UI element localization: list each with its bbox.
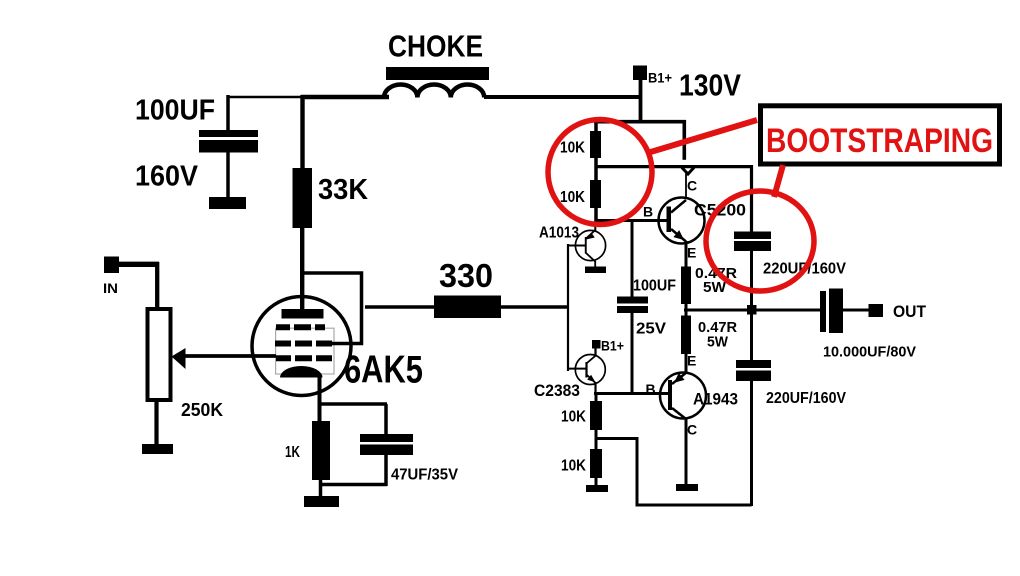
highlight ellipse around 10K divider [548, 120, 652, 225]
capacitor 10000UF/80V output [820, 289, 916, 361]
svg-text:E: E [687, 353, 696, 369]
wire choke to B1+ node [484, 95, 641, 99]
wire bootstrap line to 220UF [596, 165, 753, 168]
node output junction [747, 305, 757, 315]
svg-text:10K: 10K [560, 140, 585, 157]
wire collector feed with hop over bootstrap line [682, 120, 686, 160]
resistor 1K [285, 421, 330, 498]
wire 10K to A1013 emitter and C5200 base [594, 208, 598, 222]
svg-text:B1+: B1+ [648, 70, 672, 86]
svg-text:E: E [687, 245, 696, 261]
svg-text:1K: 1K [285, 444, 300, 461]
svg-text:IN: IN [103, 280, 118, 296]
resistor 10K bias upper [561, 393, 602, 450]
svg-text:C: C [687, 422, 697, 438]
resistor 33K [293, 95, 369, 311]
svg-text:10.000UF/80V: 10.000UF/80V [823, 344, 916, 361]
capacitor 220UF/160V output bottom [736, 314, 846, 506]
resistor 10K bias lower [561, 449, 602, 486]
ground under 100UF [209, 197, 246, 209]
svg-text:OUT: OUT [893, 302, 927, 321]
svg-text:33K: 33K [318, 174, 368, 206]
transistor A1943 [646, 372, 739, 485]
red pointer line from box to ellipse [774, 165, 783, 197]
ground under 10K bias [586, 485, 608, 492]
svg-text:220UF/160V: 220UF/160V [766, 390, 846, 407]
svg-text:BOOTSTRAPING: BOOTSTRAPING [766, 122, 993, 160]
svg-text:100UF: 100UF [633, 278, 676, 295]
wire top rail of driver stage [594, 120, 686, 124]
svg-text:CHOKE: CHOKE [388, 29, 483, 64]
potentiometer 250K [148, 309, 277, 446]
choke L1 [384, 29, 489, 98]
terminal B1+ 130V [633, 66, 741, 124]
svg-text:25V: 25V [636, 321, 666, 338]
capacitor 100UF/25V [617, 219, 676, 394]
wire base line to C5200 [596, 219, 667, 222]
svg-text:A1013: A1013 [539, 225, 579, 242]
transistor C2383 [534, 355, 605, 401]
ground under 1K [304, 496, 339, 507]
resistor 10K lower (bootstrap divider) [560, 180, 601, 208]
svg-text:330: 330 [439, 257, 493, 294]
tube 6AK5 [252, 297, 423, 396]
resistor 0.47R 5W lower [681, 316, 737, 375]
highlight ellipse around bootstrap cap [706, 191, 814, 291]
resistor 0.47R 5W upper [681, 265, 737, 317]
capacitor 100UF/160V [135, 95, 258, 199]
wire between 10K resistors [594, 158, 598, 181]
red pointer line from ellipse to box [649, 120, 757, 153]
svg-text:160V: 160V [135, 161, 199, 193]
svg-text:47UF/35V: 47UF/35V [391, 467, 458, 484]
svg-text:B1+: B1+ [601, 339, 624, 354]
annotation BOOTSTRAPING box [761, 106, 1000, 164]
resistor 10K upper (bootstrap divider) [560, 123, 601, 158]
wire A1013 base down to C2383 base [567, 244, 569, 371]
wire output node line [684, 309, 820, 312]
terminal OUT [869, 302, 927, 321]
svg-text:10K: 10K [561, 458, 586, 475]
wire bias junction to bottom rail [596, 439, 752, 506]
svg-text:6AK5: 6AK5 [344, 349, 423, 392]
terminal B1+ driver [592, 339, 624, 357]
svg-text:B: B [643, 204, 653, 220]
svg-text:5W: 5W [707, 334, 729, 351]
terminal IN [103, 257, 159, 309]
wire cathode down [318, 376, 322, 422]
svg-text:A1943: A1943 [693, 390, 738, 409]
svg-text:130V: 130V [679, 68, 741, 103]
svg-text:10K: 10K [561, 409, 586, 426]
svg-text:250K: 250K [181, 400, 223, 420]
svg-text:100UF: 100UF [135, 95, 215, 127]
capacitor 220UF/160V bootstrap [734, 165, 846, 306]
svg-text:10K: 10K [560, 189, 585, 206]
wire screen grid branch [302, 273, 362, 344]
wire B+ top rail from 100UF to choke [228, 96, 303, 99]
ground bar under A1013 [585, 267, 606, 274]
ground under 250K [142, 444, 173, 454]
svg-text:C2383: C2383 [534, 381, 580, 400]
transistor A1013 [539, 220, 606, 267]
transistor C5200 [643, 178, 746, 269]
wire driver output node line [594, 392, 668, 395]
svg-text:C: C [687, 178, 697, 194]
ground under A1943 [676, 484, 698, 491]
svg-text:5W: 5W [703, 279, 727, 296]
capacitor 47UF/35V [318, 404, 458, 486]
resistor 330 [365, 257, 569, 318]
